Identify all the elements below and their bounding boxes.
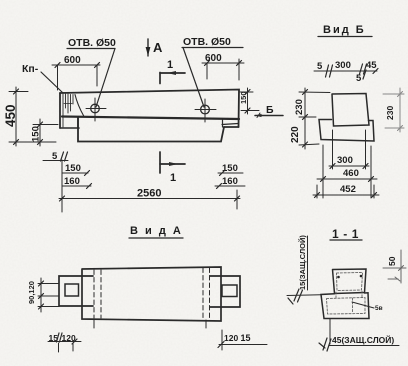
svg-text:15(ЗАЩ.СЛОЙ): 15(ЗАЩ.СЛОЙ): [298, 235, 307, 290]
svg-text:1: 1: [167, 59, 173, 71]
view A main rectangle: [82, 267, 221, 321]
section 1-1 leader to mesh label: [352, 302, 383, 312]
dimension 600 left: [52, 55, 100, 90]
svg-text:150: 150: [31, 126, 42, 142]
label Kp with leader: [22, 63, 63, 93]
section 1-1 bottom label 45 zash sloy: [319, 319, 399, 351]
svg-text:600: 600: [205, 53, 222, 64]
dimension 150 right end of beam: [239, 88, 259, 114]
section cut mark 1 (bottom): [160, 152, 185, 184]
svg-text:220: 220: [290, 126, 301, 143]
hole O50 left: circle and centerlines: [86, 98, 106, 121]
dim 160 bottom right: [215, 176, 245, 189]
view A hidden lines left: [94, 270, 101, 318]
view A extension ticks below: [94, 319, 206, 328]
svg-text:120: 120: [224, 333, 238, 343]
title section 1-1: [330, 227, 362, 241]
svg-text:Вид Б: Вид Б: [323, 24, 366, 36]
svg-text:5: 5: [317, 61, 323, 72]
svg-text:1 - 1: 1 - 1: [332, 227, 359, 241]
section cut mark 1 (top): [160, 59, 185, 84]
section 1-1 right dim 50: [383, 250, 406, 283]
dim 160 bottom left: [62, 175, 92, 189]
dim 150 bottom right: [218, 163, 243, 176]
beam side view: left bearing ledge: [60, 117, 79, 128]
svg-text:А: А: [153, 40, 163, 55]
svg-text:ОТВ. Ø50: ОТВ. Ø50: [183, 36, 231, 48]
svg-text:5в: 5в: [375, 305, 383, 312]
dimension 450 left: [3, 87, 56, 146]
section 1-1 slab inner contour: [327, 291, 366, 314]
svg-text:230: 230: [294, 99, 305, 115]
title View A: [129, 225, 183, 238]
svg-text:150: 150: [222, 163, 238, 174]
view B upper web shape: [332, 94, 369, 127]
section 1-1 upper web inner contour: [337, 273, 363, 291]
view A hidden lines right: [203, 268, 210, 320]
dimension 600 right: [202, 53, 244, 80]
svg-text:600: 600: [64, 55, 81, 66]
view A right tab: [210, 276, 240, 307]
dimension 90/120 left of view A: [27, 278, 59, 312]
svg-text:45(ЗАЩ.СЛОЙ): 45(ЗАЩ.СЛОЙ): [332, 334, 394, 345]
dim 150 bottom left: [62, 162, 90, 176]
label OTB O50 right with underline and leader: [182, 36, 243, 107]
svg-text:150: 150: [239, 91, 248, 104]
title View B: [318, 24, 372, 37]
dim chain 5 bottom left: [43, 151, 68, 162]
svg-text:ОТВ. Ø50: ОТВ. Ø50: [68, 37, 116, 49]
svg-text:Б: Б: [266, 104, 274, 116]
svg-text:160: 160: [222, 176, 238, 187]
view B bottom dims 300/460/452: [313, 130, 379, 198]
hole O50 right: circle and centerlines: [195, 99, 216, 122]
svg-text:В и д А: В и д А: [130, 225, 183, 237]
dimension 150 left: [31, 119, 59, 146]
svg-text:5: 5: [356, 73, 362, 84]
svg-text:1: 1: [170, 172, 176, 184]
svg-text:90,120: 90,120: [27, 281, 36, 304]
view B bottom flange slab: [319, 120, 374, 142]
label OTB O50 left with underline and leader: [67, 37, 116, 107]
svg-text:160: 160: [64, 176, 80, 187]
view B top dim chain 5,300,45: [314, 60, 378, 84]
svg-text:450: 450: [3, 104, 18, 127]
view A right tab square hole: [222, 285, 237, 297]
beam side view: web lower body: [78, 117, 239, 142]
dimension 15,120 below view A left: [48, 333, 81, 352]
svg-text:452: 452: [340, 184, 356, 195]
svg-text:460: 460: [343, 168, 359, 179]
svg-text:45: 45: [366, 60, 377, 71]
beam side view: top flange outline: [60, 90, 239, 129]
embedded part Kp detail at left end (hatched): [63, 94, 84, 127]
dimension 120,15 below view A right: [218, 330, 267, 350]
svg-text:230: 230: [385, 106, 395, 120]
section 1-1 rebar dots: [337, 275, 362, 279]
svg-text:300: 300: [335, 60, 351, 71]
svg-text:150: 150: [65, 163, 81, 174]
section 1-1 bottom slab outline: [321, 293, 369, 319]
dimension 2560 overall: [59, 160, 240, 212]
view B left dims 230/220: [290, 88, 330, 149]
svg-text:15: 15: [241, 333, 251, 343]
svg-text:300: 300: [337, 155, 353, 166]
svg-text:2560: 2560: [137, 188, 161, 200]
svg-text:Кп-: Кп-: [22, 63, 39, 75]
view A left tab square hole: [65, 284, 79, 296]
svg-text:50: 50: [387, 256, 397, 266]
section 1-1 left label 15 zash sloy (rotated): [287, 235, 321, 304]
view arrow A (top): [146, 39, 163, 56]
view arrow B (right of main view): [255, 104, 283, 118]
view A left tab: [59, 276, 93, 306]
view B right dim 230 faint: [383, 88, 404, 132]
section 1-1 upper web outline: [333, 269, 367, 294]
